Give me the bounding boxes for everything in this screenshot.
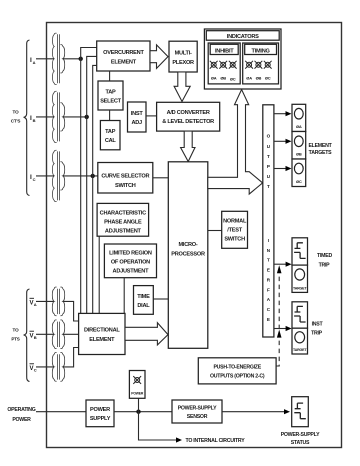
svg-text:TIME: TIME <box>137 294 150 300</box>
power lamp indicator <box>129 371 145 399</box>
outer enclosure border <box>47 23 342 448</box>
element target phase B <box>292 132 306 160</box>
PT input label VA <box>30 298 37 307</box>
arrowhead energize into timed trip <box>277 265 282 273</box>
svg-text:OVERCURRENT: OVERCURRENT <box>103 50 144 56</box>
curve selector switch <box>98 163 153 194</box>
svg-text:INHIBIT: INHIBIT <box>215 48 234 54</box>
svg-text:ØB: ØB <box>296 152 302 157</box>
svg-text:TIMED: TIMED <box>317 253 332 259</box>
svg-text:SWITCH: SWITCH <box>224 237 245 243</box>
wire interface to target B <box>274 139 292 144</box>
svg-text:B: B <box>34 335 37 340</box>
push-to-energize outputs box <box>198 358 276 384</box>
timing indicator group <box>243 43 279 84</box>
block arrow multiplexor to A/D <box>174 72 190 102</box>
wire IB input <box>36 116 54 118</box>
svg-text:ØA: ØA <box>246 76 252 81</box>
svg-text:INST: INST <box>312 322 324 328</box>
svg-text:E: E <box>267 317 270 322</box>
svg-text:C: C <box>34 368 37 373</box>
svg-text:PHASE ANGLE: PHASE ANGLE <box>104 220 142 226</box>
svg-text:SELECT: SELECT <box>100 99 121 105</box>
timed trip output contact K1 <box>292 238 308 265</box>
wire inst adj to A/D <box>146 115 157 117</box>
transformer PT1 <box>52 287 64 316</box>
svg-text:TRIP: TRIP <box>311 331 323 337</box>
svg-text:CT'S: CT'S <box>11 119 21 124</box>
PT input label VB <box>30 331 37 340</box>
svg-text:ØA: ØA <box>296 124 302 129</box>
CT input label IC <box>30 174 36 182</box>
svg-text:NORMAL: NORMAL <box>223 219 247 225</box>
svg-text:A: A <box>33 60 36 65</box>
wire phase C bus <box>93 65 97 313</box>
directional element U6 <box>79 313 125 354</box>
svg-text:MULTI-: MULTI- <box>175 51 192 57</box>
label timed trip <box>317 253 332 269</box>
svg-text:TARGET: TARGET <box>293 348 307 352</box>
svg-text:ØB: ØB <box>220 76 226 81</box>
lamp timing phase C <box>264 61 272 69</box>
svg-text:ELEMENT: ELEMENT <box>308 143 332 149</box>
wire junction to power lamp <box>138 398 140 411</box>
time dial adjustment <box>134 286 154 315</box>
svg-text:TO: TO <box>13 110 20 115</box>
svg-text:POWER-SUPPLY: POWER-SUPPLY <box>281 432 320 438</box>
svg-text:INST: INST <box>131 111 144 117</box>
CT input label IA <box>30 57 36 65</box>
tap select switch <box>98 81 123 110</box>
characteristic phase angle adjustment <box>97 203 149 236</box>
wire interface to timed trip <box>274 262 292 267</box>
svg-text:TIMING: TIMING <box>252 48 270 54</box>
wire tap select to tap cal <box>109 110 111 121</box>
svg-text:INDICATORS: INDICATORS <box>227 34 259 40</box>
inst trip target <box>292 328 308 354</box>
transformer PT2 <box>52 320 64 349</box>
svg-text:SWITCH: SWITCH <box>115 183 136 189</box>
svg-text:DIAL: DIAL <box>137 303 150 309</box>
arrowhead energize into inst trip <box>277 330 282 338</box>
output interface U5 <box>263 105 274 337</box>
block arrow A/D to microprocessor <box>181 131 195 161</box>
CT input label IB <box>30 115 36 123</box>
svg-text:ØC: ØC <box>296 179 302 184</box>
dashed wire push-to-energize to trip outputs <box>276 267 279 366</box>
svg-text:OUTPUTS (OPTION 2-C): OUTPUTS (OPTION 2-C) <box>210 374 265 380</box>
block arrow microprocessor to output interface with branch to indicators <box>208 90 263 195</box>
timed trip target <box>292 265 308 292</box>
lamp inhibit phase A <box>210 61 218 69</box>
svg-text:ØC: ØC <box>230 77 236 82</box>
label operating power <box>7 407 35 423</box>
svg-text:PROCESSOR: PROCESSOR <box>171 252 205 258</box>
brace TO PTS <box>11 289 29 382</box>
block arrow overcurrent to multiplexor <box>150 45 168 69</box>
svg-text:CURVE SELECTOR: CURVE SELECTOR <box>101 174 149 180</box>
transformer CT2 <box>52 91 64 142</box>
wire phase angle adj to directional element <box>98 236 100 313</box>
wire PT1 to directional element <box>63 301 79 321</box>
element target phase A <box>292 104 306 131</box>
power supply status contact K3 <box>292 397 309 427</box>
lamp inhibit phase C <box>229 61 237 69</box>
node junction phase A <box>79 57 83 61</box>
svg-text:ELEMENT: ELEMENT <box>111 60 137 66</box>
wire interface to inst trip <box>274 326 292 331</box>
svg-text:TARGET: TARGET <box>293 287 307 291</box>
svg-text:POWER: POWER <box>12 417 31 423</box>
lamp inhibit phase B <box>219 61 227 69</box>
svg-text:B: B <box>33 118 36 123</box>
node power junction <box>136 410 140 414</box>
wire overcurrent to tap select <box>109 71 111 81</box>
brace TO CTS <box>11 40 30 196</box>
power supply sensor U7 <box>172 400 222 423</box>
svg-text:ØA: ØA <box>211 76 217 81</box>
wire PT2 to directional element <box>63 333 79 335</box>
svg-text:LIMITED REGION: LIMITED REGION <box>109 251 152 257</box>
svg-text:TRIP: TRIP <box>319 263 331 269</box>
limited region of operation adjustment <box>104 244 156 278</box>
svg-text:TARGETS: TARGETS <box>309 150 332 156</box>
tap cal adjustment <box>100 121 120 150</box>
svg-text:POWER: POWER <box>90 407 110 413</box>
wire interface to target A <box>274 111 292 116</box>
power supply PS1 <box>86 400 114 427</box>
overcurrent element U1 <box>97 41 150 71</box>
svg-text:T: T <box>267 258 270 263</box>
svg-text:ADJUSTMENT: ADJUSTMENT <box>105 229 142 235</box>
inst trip output contact K2 <box>292 302 308 328</box>
wire curve selector to microprocessor <box>153 177 169 179</box>
wire microprocessor to normal/test switch <box>208 230 222 232</box>
svg-text:F: F <box>267 287 270 292</box>
A/D converter and level detector U3 <box>157 102 220 131</box>
svg-text:A/D CONVERTER: A/D CONVERTER <box>167 110 210 116</box>
svg-text:OF OPERATION: OF OPERATION <box>111 260 150 266</box>
svg-text:CHARACTERISTIC: CHARACTERISTIC <box>100 211 146 217</box>
wire VB input <box>36 333 54 335</box>
transformer CT3 <box>52 150 64 201</box>
svg-text:DIRECTIONAL: DIRECTIONAL <box>84 328 120 334</box>
label inst trip <box>311 322 323 337</box>
svg-text:T: T <box>267 184 270 189</box>
wire sensor to power supply status <box>222 409 290 414</box>
wire CT3 secondary to curve selector <box>63 175 98 177</box>
svg-text:SUPPLY: SUPPLY <box>90 416 111 422</box>
svg-text:/TEST: /TEST <box>227 228 242 234</box>
wire limited region to directional element <box>123 278 125 314</box>
svg-text:SENSOR: SENSOR <box>187 414 208 420</box>
svg-text:E: E <box>267 268 270 273</box>
svg-text:ØB: ØB <box>256 76 262 81</box>
svg-text:POWER-SUPPLY: POWER-SUPPLY <box>178 406 217 412</box>
svg-text:PLEXOR: PLEXOR <box>172 60 194 66</box>
microprocessor U4 <box>168 162 208 348</box>
wire PT3 to directional element <box>63 348 79 367</box>
wire IA input <box>36 58 54 60</box>
wire power supply to sensor <box>114 411 172 413</box>
PT input label VC <box>30 364 37 373</box>
svg-text:ADJ: ADJ <box>131 120 142 126</box>
svg-text:& LEVEL DETECTOR: & LEVEL DETECTOR <box>162 119 214 125</box>
svg-text:PTS: PTS <box>11 337 19 342</box>
label power supply status <box>281 432 320 446</box>
svg-text:CAL: CAL <box>105 138 117 144</box>
wire operating power to power supply <box>36 411 86 413</box>
wire phase B bus <box>87 56 97 313</box>
svg-text:P: P <box>267 164 270 169</box>
svg-text:ELEMENT: ELEMENT <box>89 337 115 343</box>
svg-text:OPERATING: OPERATING <box>7 407 35 413</box>
lamp timing phase B <box>255 61 263 69</box>
multiplexor U2 <box>169 41 197 72</box>
svg-text:ADJUSTMENT: ADJUSTMENT <box>113 269 150 275</box>
normal/test switch <box>222 211 248 248</box>
wire to internal circuitry <box>139 412 183 443</box>
wire phase A bus <box>81 48 97 314</box>
svg-text:TAP: TAP <box>105 90 116 96</box>
lamp timing phase A <box>245 61 253 69</box>
svg-text:STATUS: STATUS <box>291 440 310 446</box>
svg-text:T: T <box>267 154 270 159</box>
svg-text:POWER: POWER <box>131 392 144 396</box>
svg-text:TO: TO <box>13 328 20 333</box>
block arrow directional element to microprocessor <box>125 323 168 345</box>
wire CT2 secondary to bus B <box>63 116 87 118</box>
wire CT1 secondary to bus A <box>63 58 81 60</box>
inhibit indicator group <box>208 43 240 84</box>
svg-text:I: I <box>268 238 269 243</box>
labels inhibit phases <box>211 76 236 82</box>
svg-text:MICRO-: MICRO- <box>178 242 197 248</box>
inst adj adjustment <box>128 102 147 132</box>
svg-text:ØC: ØC <box>265 76 271 81</box>
node junction phase C <box>91 174 95 178</box>
wire IC input <box>36 175 54 177</box>
wire VA input <box>36 300 54 302</box>
label element targets <box>308 143 332 156</box>
transformer CT1 <box>52 33 64 84</box>
element target phase C <box>292 159 306 187</box>
wire time dial to microprocessor <box>153 298 168 300</box>
svg-text:TO INTERNAL CIRCUITRY: TO INTERNAL CIRCUITRY <box>186 438 246 444</box>
svg-text:TAP: TAP <box>105 129 116 135</box>
transformer PT3 <box>52 353 64 382</box>
node junction phase B <box>85 115 89 119</box>
svg-text:C: C <box>33 177 36 182</box>
wire VC input <box>36 366 54 368</box>
indicators assembly <box>204 29 281 89</box>
svg-text:PUSH-TO-ENERGIZE: PUSH-TO-ENERGIZE <box>213 365 261 371</box>
svg-text:A: A <box>34 302 37 307</box>
wire interface to target C <box>274 166 292 171</box>
labels timing phases <box>246 76 271 81</box>
